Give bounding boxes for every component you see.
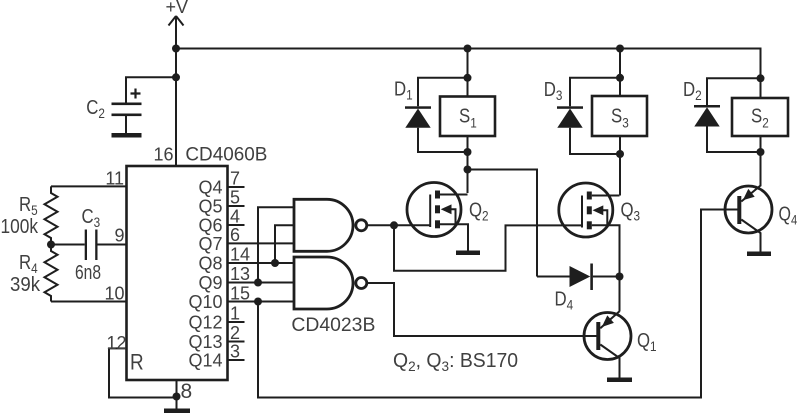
MOSFET Q3	[559, 183, 640, 277]
ground C2	[112, 133, 142, 138]
wire Q7 pin6 to gate1	[228, 242, 295, 244]
svg-text:Q1: Q1	[637, 329, 657, 355]
svg-text:10: 10	[104, 284, 124, 304]
node S3-D3 bottom	[616, 150, 624, 158]
IC U1 CD4060B body	[127, 144, 268, 381]
node S1 net to D4 branch	[464, 166, 472, 174]
transistor Q4 PNP	[725, 186, 797, 252]
node pin13 branch	[254, 279, 262, 287]
svg-text:D2: D2	[683, 78, 702, 104]
svg-text:100k: 100k	[1, 216, 39, 238]
wire Q10 pin15 to gate2	[228, 301, 295, 303]
NAND gate U2b	[291, 257, 375, 336]
node pin8-reset junction	[173, 393, 181, 401]
node rail-S3	[616, 45, 624, 53]
node rail-C2	[172, 45, 180, 53]
svg-text:CD4023B: CD4023B	[291, 314, 375, 336]
wire S1 net to D4	[468, 170, 538, 277]
diode D2	[683, 78, 761, 152]
resistor R4 39k	[10, 245, 58, 302]
wire top rail	[176, 49, 761, 98]
svg-text:8: 8	[181, 380, 193, 403]
svg-text:C3: C3	[82, 205, 101, 231]
wire S2 top	[760, 49, 762, 99]
node S1-D1 top	[464, 74, 472, 82]
ground pin8	[164, 409, 190, 413]
svg-text:7: 7	[230, 169, 240, 189]
svg-text:Q12: Q12	[188, 313, 222, 333]
svg-text:3: 3	[230, 342, 240, 362]
diode D1	[394, 77, 468, 152]
wire D4 node down to Q1 emitter	[619, 277, 621, 312]
capacitor C2	[86, 77, 176, 133]
svg-text:Q9: Q9	[198, 273, 222, 293]
node S3-D3 top	[616, 74, 624, 82]
NAND gate U2a	[294, 199, 367, 251]
diode D4	[537, 264, 620, 313]
svg-text:6: 6	[230, 225, 240, 245]
node D4-Q1	[616, 273, 624, 281]
node R5-R4-C3	[47, 241, 55, 249]
svg-text:Q2: Q2	[469, 198, 489, 224]
svg-text:39k: 39k	[10, 274, 41, 296]
svg-text:Q4: Q4	[198, 178, 222, 198]
node S2-D2 top	[757, 74, 765, 82]
svg-text:Q5: Q5	[198, 197, 222, 217]
node S1-D1 bottom	[464, 148, 472, 156]
svg-text:Q13: Q13	[188, 332, 222, 352]
svg-text:9: 9	[114, 226, 124, 246]
svg-text:R5: R5	[19, 193, 38, 219]
ground Q2	[456, 251, 480, 256]
svg-text:Q10: Q10	[188, 292, 222, 312]
svg-text:D3: D3	[544, 77, 563, 103]
node gate1 output	[390, 221, 398, 229]
svg-text:6n8: 6n8	[75, 262, 101, 284]
node rail-S1	[464, 45, 472, 53]
svg-text:Q8: Q8	[198, 254, 222, 274]
transistor Q1 PNP	[584, 311, 657, 377]
wire Q9 pin13 to gate2	[228, 282, 295, 284]
pin 11 wire	[51, 185, 127, 187]
wire S3 bottom to Q3 drain	[619, 136, 621, 196]
wire gate2 output to Q1 base	[367, 283, 597, 336]
pin 8 ground wire	[176, 380, 178, 409]
switch S2	[732, 98, 788, 136]
wire Q8 branch to gate1 mid input	[275, 225, 294, 263]
node pin14 branch	[271, 259, 279, 267]
wire S1 top	[467, 49, 469, 97]
svg-text:Q4: Q4	[779, 203, 798, 228]
wire S3 top	[619, 49, 621, 97]
svg-text:5: 5	[230, 188, 240, 208]
wire S1 bottom to Q2 drain	[467, 136, 469, 193]
pin 12 reset wire	[109, 348, 177, 397]
svg-text:Q7: Q7	[198, 234, 222, 254]
svg-text:D1: D1	[394, 77, 413, 103]
wire S2 bottom to Q4 emitter	[760, 136, 762, 186]
svg-text:12: 12	[106, 333, 126, 353]
svg-text:Q14: Q14	[188, 351, 222, 371]
svg-text:R: R	[130, 350, 144, 375]
svg-text:1: 1	[230, 304, 240, 324]
ground Q4	[747, 252, 771, 257]
wire gate1 output jog to Q3 gate	[394, 225, 582, 270]
resistor R5 100k	[1, 186, 58, 244]
chip output labels	[188, 178, 222, 371]
svg-text:Q2, Q3: BS170: Q2, Q3: BS170	[393, 350, 518, 374]
diode D3	[544, 77, 620, 154]
ground Q1	[607, 378, 632, 383]
svg-text:C2: C2	[86, 96, 105, 122]
wire Q9 branch to gate1 top input	[258, 207, 294, 282]
svg-text:2: 2	[230, 323, 240, 343]
svg-text:+V: +V	[166, 0, 189, 17]
svg-text:13: 13	[230, 264, 250, 284]
svg-text:Q3: Q3	[621, 198, 641, 224]
switch S3	[592, 96, 647, 136]
wire gate1 output to Q2 gate	[367, 224, 430, 226]
svg-text:11: 11	[105, 169, 124, 189]
pin 10 wire	[51, 301, 127, 303]
wire Q10 branch down to bottom rail	[258, 210, 738, 398]
+V supply arrow	[166, 0, 189, 166]
label BS170 note	[393, 350, 518, 374]
svg-text:4: 4	[230, 207, 240, 227]
capacitor C3 6n8	[51, 205, 127, 284]
svg-text:Q6: Q6	[198, 216, 222, 236]
wire Q8 pin14 to gate2	[228, 262, 295, 264]
pin stubs right side	[228, 169, 251, 362]
svg-text:R4: R4	[19, 251, 38, 277]
svg-text:CD4060B: CD4060B	[185, 144, 267, 166]
node C2 tap	[172, 73, 180, 81]
svg-text:14: 14	[230, 245, 250, 265]
node S2-D2 bottom	[757, 148, 765, 156]
node pin15 branch	[254, 298, 262, 306]
svg-text:16: 16	[153, 145, 173, 165]
svg-text:D4: D4	[555, 287, 574, 313]
MOSFET Q2	[407, 183, 489, 251]
switch S1	[440, 97, 495, 137]
